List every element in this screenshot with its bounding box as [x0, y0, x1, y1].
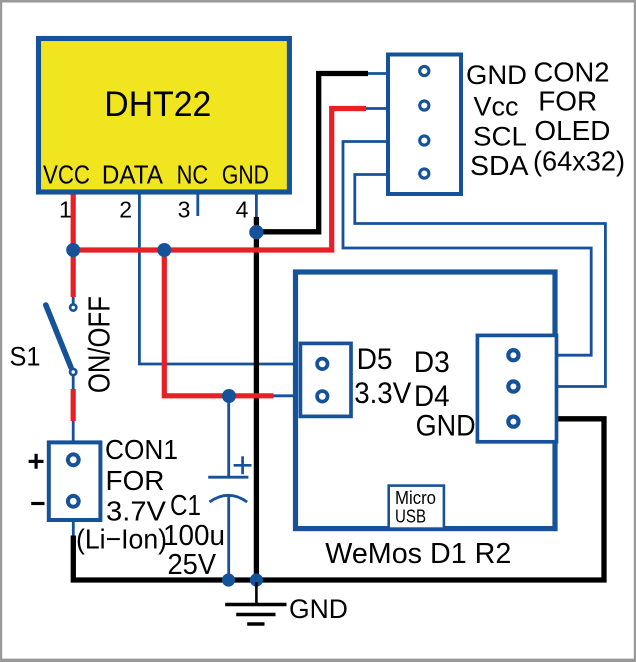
- svg-text:DATA: DATA: [102, 162, 163, 190]
- svg-text:1: 1: [59, 196, 72, 222]
- svg-text:C1: C1: [170, 490, 201, 522]
- svg-text:(64x32): (64x32): [533, 146, 625, 177]
- svg-text:ON/OFF: ON/OFF: [83, 296, 117, 393]
- svg-text:VCC: VCC: [43, 162, 90, 190]
- svg-text:GND: GND: [222, 162, 269, 190]
- svg-text:3: 3: [178, 196, 191, 222]
- svg-text:D3: D3: [414, 346, 450, 379]
- svg-text:DHT22: DHT22: [104, 84, 211, 124]
- svg-text:CON2: CON2: [534, 56, 610, 87]
- svg-text:OLED: OLED: [534, 115, 610, 146]
- svg-text:CON1: CON1: [105, 434, 178, 465]
- svg-text:4: 4: [236, 196, 249, 222]
- svg-text:3.7V: 3.7V: [106, 496, 166, 527]
- svg-text:D4: D4: [414, 380, 450, 413]
- svg-text:Vcc: Vcc: [474, 91, 519, 121]
- svg-text:SCL: SCL: [473, 121, 527, 151]
- svg-text:NC: NC: [177, 162, 209, 190]
- svg-text:100u: 100u: [163, 520, 225, 552]
- svg-text:GND: GND: [466, 60, 527, 90]
- svg-text:USB: USB: [395, 507, 426, 527]
- svg-text:2: 2: [119, 196, 132, 222]
- svg-text:3.3V: 3.3V: [354, 377, 411, 410]
- svg-text:Micro: Micro: [395, 488, 436, 508]
- svg-text:FOR: FOR: [106, 465, 165, 496]
- svg-text:FOR: FOR: [538, 86, 597, 117]
- svg-text:GND: GND: [416, 410, 476, 443]
- svg-text:25V: 25V: [168, 549, 217, 581]
- svg-text:SDA: SDA: [470, 150, 529, 181]
- svg-text:GND: GND: [289, 594, 348, 624]
- svg-text:D5: D5: [357, 343, 393, 376]
- svg-text:(Li−Ion): (Li−Ion): [76, 524, 167, 555]
- svg-text:WeMos D1 R2: WeMos D1 R2: [325, 538, 511, 570]
- svg-text:S1: S1: [10, 342, 41, 372]
